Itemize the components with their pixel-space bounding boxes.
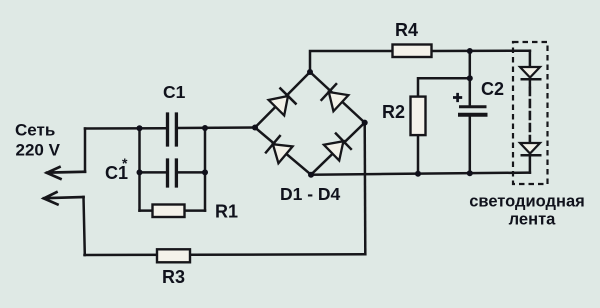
node: bridge bottom bbox=[308, 172, 314, 178]
resistor R1 bbox=[153, 205, 185, 218]
bridge diamond edges bbox=[255, 72, 365, 175]
capacitor C1 plates bbox=[168, 114, 177, 145]
wire: LED chain dashed continuation bbox=[529, 88, 532, 141]
node: C2 bottom bbox=[467, 170, 473, 176]
svg-text:220 V: 220 V bbox=[16, 141, 61, 160]
wire: R2 bottom bbox=[417, 135, 420, 174]
resistor R3 bbox=[157, 249, 190, 262]
wire: terminal arrow 2 bbox=[44, 192, 84, 204]
LED strip dashed box bbox=[513, 42, 548, 184]
node: bridge top bbox=[307, 69, 313, 75]
node: main wire / C1 left bbox=[137, 125, 143, 131]
wire: R4 right to LED corner bbox=[432, 49, 530, 52]
resistor R4 bbox=[393, 45, 432, 58]
svg-text:D1 - D4: D1 - D4 bbox=[280, 184, 341, 204]
svg-text:R1: R1 bbox=[215, 202, 238, 222]
capacitor C1* plates bbox=[168, 160, 177, 186]
wire: C1* branch right vertical bbox=[204, 128, 207, 211]
wire: C2 below to rail bbox=[469, 117, 472, 174]
wire: LED chain stub below top diode bbox=[529, 80, 532, 86]
wire: C1* branch left vertical bbox=[138, 128, 141, 210]
wire: C1* horizontal right bbox=[178, 171, 205, 174]
node: C1* right bbox=[202, 169, 208, 175]
svg-text:лента: лента bbox=[509, 211, 556, 229]
svg-text:R4: R4 bbox=[395, 20, 418, 40]
resistor R2 bbox=[411, 97, 426, 136]
node: bridge left bbox=[252, 125, 258, 131]
wire: terminal arrow 1 bbox=[47, 167, 85, 179]
wire: DC minus rail bbox=[311, 173, 530, 175]
wire: LED chain top bbox=[529, 51, 532, 67]
node: R2 tap bbox=[467, 75, 473, 81]
wire: left lower vertical (terminal 2 down to bottom rail) bbox=[84, 197, 85, 255]
wire: C1* horizontal left bbox=[140, 171, 167, 174]
svg-text:*: * bbox=[122, 155, 128, 171]
svg-text:R2: R2 bbox=[382, 102, 405, 122]
svg-text:C1: C1 bbox=[163, 82, 186, 102]
svg-text:светодиодная: светодиодная bbox=[469, 193, 585, 211]
wire: right vertical up to bridge right node bbox=[363, 123, 366, 255]
label + (C2 polarity) bbox=[453, 93, 462, 102]
wire: bridge top node to top rail bbox=[310, 51, 393, 72]
svg-text:C2: C2 bbox=[481, 79, 504, 99]
diode D4 (bridge bottom-right) bbox=[323, 133, 352, 162]
diode D3 (bridge bottom-left) bbox=[265, 135, 293, 164]
node: R2 bottom bbox=[415, 171, 421, 177]
svg-text:Сеть: Сеть bbox=[15, 121, 55, 140]
wire: top rail right of C1 bbox=[178, 126, 255, 129]
LED diode top bbox=[520, 67, 542, 79]
wire: bottom rail with R3 bbox=[85, 253, 366, 256]
svg-text:R3: R3 bbox=[162, 267, 185, 287]
wire: LED chain stub below bottom diode bbox=[529, 156, 532, 173]
wire: C2 vertical from top rail bbox=[469, 51, 472, 106]
node: C1* left bbox=[137, 169, 143, 175]
junction node dots bbox=[137, 48, 473, 178]
LED diode bottom bbox=[520, 143, 542, 155]
wire: R1 branch horizontal bbox=[140, 209, 206, 212]
diode D2 (bridge right-top) bbox=[321, 83, 349, 112]
wire: left upper vertical (terminal 1 to top rail) bbox=[84, 129, 87, 172]
capacitor C2 plates bbox=[458, 107, 488, 115]
node: top rail / C2 bbox=[467, 48, 473, 54]
node: main wire / C1 right bbox=[202, 125, 208, 131]
wire: top rail from left vertical to bridge left node bbox=[85, 127, 166, 130]
wire: R2 top tap bbox=[418, 78, 470, 97]
diode D1 (bridge left-top) bbox=[268, 88, 297, 117]
node: bridge right bbox=[362, 120, 368, 126]
